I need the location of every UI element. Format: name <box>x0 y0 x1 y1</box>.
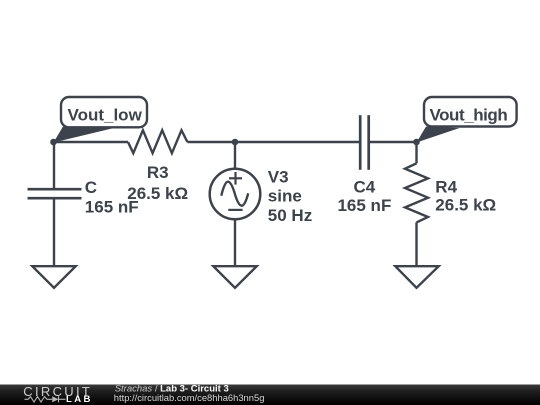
svg-text:V3: V3 <box>268 168 289 187</box>
svg-text:26.5 kΩ: 26.5 kΩ <box>435 196 496 215</box>
svg-text:R4: R4 <box>435 178 457 197</box>
svg-text:http://circuitlab.com/ce8hha6h: http://circuitlab.com/ce8hha6h3nn5g <box>114 392 265 403</box>
svg-text:C: C <box>85 178 97 197</box>
svg-text:C4: C4 <box>354 177 376 196</box>
svg-text:165 nF: 165 nF <box>337 196 391 215</box>
svg-text:LAB: LAB <box>66 394 93 405</box>
svg-text:Vout_low: Vout_low <box>68 105 143 124</box>
svg-text:sine: sine <box>268 187 302 206</box>
svg-text:Vout_high: Vout_high <box>430 106 508 125</box>
svg-text:50 Hz: 50 Hz <box>268 206 312 225</box>
svg-text:R3: R3 <box>147 163 169 182</box>
svg-text:165 nF: 165 nF <box>85 198 139 217</box>
